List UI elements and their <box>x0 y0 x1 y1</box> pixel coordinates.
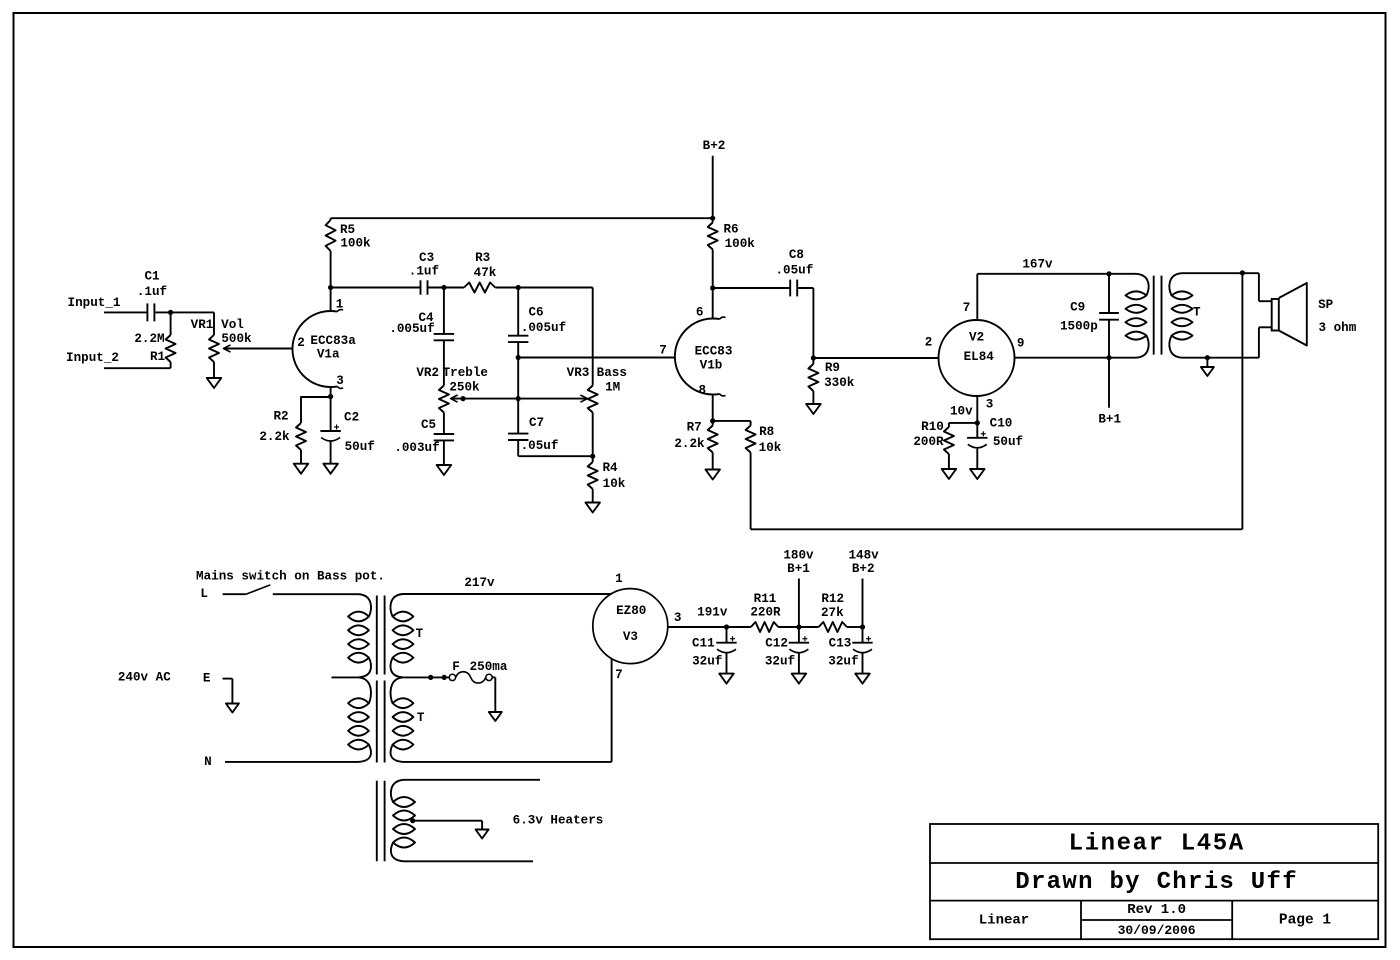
wire Input 1 <box>104 311 147 313</box>
svg-text:191v: 191v <box>697 606 728 620</box>
ground R2 <box>294 464 309 474</box>
svg-text:32uf: 32uf <box>765 655 795 669</box>
junction dot V1a anode node <box>328 285 333 290</box>
fuse F 250ma <box>449 674 455 680</box>
wire anode row to C3 <box>331 287 421 289</box>
mains switch lever <box>246 585 270 594</box>
svg-text:500k: 500k <box>221 332 252 346</box>
svg-text:R10: R10 <box>921 420 944 434</box>
svg-text:C5: C5 <box>421 418 436 432</box>
svg-text:.05uf: .05uf <box>776 264 814 278</box>
svg-text:.1uf: .1uf <box>137 285 167 299</box>
svg-text:T: T <box>416 627 424 641</box>
svg-text:10k: 10k <box>603 477 626 491</box>
svg-text:R1: R1 <box>150 350 166 364</box>
capacitor C9 <box>1108 274 1110 313</box>
capacitor C12 (electrolytic) <box>798 627 800 643</box>
wire B+1 stub <box>798 579 800 628</box>
svg-text:6: 6 <box>696 306 704 320</box>
wire C3 to R3 junction <box>428 287 465 289</box>
power transformer secondary lower winding T <box>391 677 403 703</box>
ground C2 <box>323 464 338 474</box>
svg-text:27k: 27k <box>821 606 844 620</box>
wire C6 node down to wiper row <box>517 358 519 399</box>
transformer T secondary winding <box>1169 273 1182 295</box>
svg-text:C6: C6 <box>528 306 543 320</box>
heater transformer core <box>376 781 378 862</box>
junction dot B+2 rail <box>710 216 715 221</box>
svg-text:N: N <box>204 755 212 769</box>
svg-text:V1a: V1a <box>317 348 340 362</box>
svg-text:.005uf: .005uf <box>521 321 566 335</box>
junction dot V1a cathode <box>328 394 333 399</box>
svg-text:3: 3 <box>986 398 994 412</box>
svg-text:50uf: 50uf <box>993 435 1023 449</box>
svg-text:100k: 100k <box>725 237 756 251</box>
junction dot VR3/C7/R4 <box>590 454 595 459</box>
junction dot 191v node <box>724 624 729 629</box>
capacitor C6 <box>517 288 519 336</box>
capacitor C2 (electrolytic) <box>330 397 332 432</box>
wire R9 node to EL84 grid <box>813 357 938 359</box>
svg-text:3: 3 <box>336 374 344 388</box>
power transformer secondary upper winding T <box>391 594 403 617</box>
svg-text:240v AC: 240v AC <box>118 670 171 684</box>
svg-text:8: 8 <box>699 384 707 398</box>
svg-text:ECC83: ECC83 <box>695 345 733 359</box>
speaker SP <box>1272 299 1279 331</box>
junction dot center tap a <box>428 675 433 680</box>
svg-text:R11: R11 <box>754 592 777 606</box>
svg-text:VR3: VR3 <box>567 366 590 380</box>
svg-text:B+2: B+2 <box>852 562 875 576</box>
triode V1b envelope <box>675 319 720 395</box>
wire speaker top terminal <box>1258 273 1260 301</box>
V2 pin 9 wire <box>1015 357 1137 359</box>
junction dot secondary ground <box>1205 355 1210 360</box>
svg-text:7: 7 <box>615 668 623 682</box>
wire 217v HT winding to rectifier <box>403 593 611 595</box>
capacitor C3 <box>420 280 422 294</box>
svg-text:Page 1: Page 1 <box>1279 913 1332 929</box>
svg-text:V2: V2 <box>969 331 984 345</box>
wire Input 2 <box>104 367 171 369</box>
potentiometer VR1 <box>213 312 215 335</box>
svg-text:F: F <box>452 660 460 674</box>
junction dot wiper row center <box>516 396 521 401</box>
svg-text:Rev 1.0: Rev 1.0 <box>1127 902 1186 918</box>
wire heater bottom lead <box>404 860 533 862</box>
resistor R6 <box>712 218 714 222</box>
svg-text:C7: C7 <box>529 416 544 430</box>
svg-text:7: 7 <box>963 301 971 315</box>
ground VR1 <box>207 378 222 388</box>
V2 pin 3 wire <box>976 396 978 423</box>
junction dot B+1 node <box>796 624 801 629</box>
svg-text:47k: 47k <box>474 266 497 280</box>
svg-text:2: 2 <box>297 336 305 350</box>
V1a pin 1 wire <box>330 288 332 312</box>
svg-text:.1uf: .1uf <box>409 264 439 278</box>
svg-text:Linear: Linear <box>979 913 1029 929</box>
junction dot C6/V1b grid <box>516 355 521 360</box>
svg-text:Treble: Treble <box>443 366 488 380</box>
power transformer primary upper winding <box>359 594 371 616</box>
wire HT center tap to fuse <box>403 676 449 678</box>
power transformer primary lower winding <box>359 677 371 703</box>
svg-text:Input_2: Input_2 <box>66 351 119 365</box>
svg-text:250k: 250k <box>449 381 480 395</box>
wire C1 to VR1 corner <box>155 311 214 313</box>
resistor R11 <box>727 626 751 628</box>
resistor R1 <box>170 312 172 335</box>
junction dot speaker/feedback <box>1240 270 1245 275</box>
junction dot B+2 node <box>860 624 865 629</box>
wire secondary bottom <box>1182 357 1259 359</box>
svg-text:B+1: B+1 <box>1098 413 1121 427</box>
wire fuse to ground <box>492 676 495 678</box>
svg-text:Vol: Vol <box>221 318 244 332</box>
ground C11 <box>719 674 734 684</box>
svg-text:.005uf: .005uf <box>389 322 434 336</box>
svg-text:SP: SP <box>1318 298 1334 312</box>
wire feedback from speaker to R8 <box>751 528 1243 530</box>
svg-text:EL84: EL84 <box>964 350 995 364</box>
svg-text:T: T <box>1193 306 1201 320</box>
ground C5 <box>437 465 452 475</box>
junction dot VR2 wiper <box>460 396 465 401</box>
svg-text:Drawn by Chris Uff: Drawn by Chris Uff <box>1015 869 1298 896</box>
wire feedback top rail R5 to B+2/R6 <box>331 217 713 219</box>
resistor R3 <box>464 283 495 293</box>
resistor R2 <box>296 423 306 450</box>
potentiometer VR2 <box>439 386 449 413</box>
svg-text:C8: C8 <box>789 248 804 262</box>
wire N to transformer primary <box>225 761 359 763</box>
power transformer core <box>376 596 378 675</box>
ground R9 <box>806 404 821 414</box>
wire B+2 stub <box>712 156 714 219</box>
capacitor C11 (electrolytic) <box>726 627 728 643</box>
junction dot C1/R1 <box>168 310 173 315</box>
svg-text:R8: R8 <box>759 425 774 439</box>
capacitor C13 (electrolytic) <box>862 627 864 643</box>
resistor R8 <box>750 421 752 426</box>
wire E <box>223 678 233 680</box>
svg-text:B+1: B+1 <box>787 562 810 576</box>
junction dot heater center tap <box>410 818 415 823</box>
svg-text:2.2k: 2.2k <box>674 437 705 451</box>
wire VR1 wiper to V1a grid <box>224 348 293 350</box>
junction dot center tap b <box>442 675 447 680</box>
svg-text:220R: 220R <box>750 606 781 620</box>
rectifier V3 EZ80 envelope <box>593 589 668 664</box>
VR3 wiper arrow <box>580 395 587 402</box>
svg-text:Mains switch on Bass pot.: Mains switch on Bass pot. <box>196 570 385 584</box>
wire heater top lead <box>404 779 540 781</box>
junction dot C9 top <box>1106 271 1111 276</box>
svg-text:EZ80: EZ80 <box>616 604 646 618</box>
wire B+1 stub under transformer <box>1108 358 1110 408</box>
svg-text:167v: 167v <box>1022 257 1053 271</box>
wire switch to transformer primary <box>273 593 359 595</box>
wire C6 to grid node <box>517 342 519 357</box>
wire 167v plate row <box>977 273 1136 275</box>
svg-text:T: T <box>417 711 425 725</box>
V1a pin 3 wire <box>330 387 332 397</box>
wire cathode to R10 <box>949 422 977 424</box>
ground heater center tap <box>476 830 489 839</box>
wire C8 to R9 node <box>797 287 813 289</box>
svg-text:Bass: Bass <box>597 366 627 380</box>
svg-text:7: 7 <box>659 343 667 357</box>
svg-text:1M: 1M <box>605 381 620 395</box>
svg-text:Linear L45A: Linear L45A <box>1069 830 1245 857</box>
svg-text:R5: R5 <box>340 223 355 237</box>
wire V1b anode to C8 <box>713 287 791 289</box>
svg-text:ECC83a: ECC83a <box>310 334 356 348</box>
svg-text:10k: 10k <box>759 441 782 455</box>
ground R10 <box>942 469 957 479</box>
svg-text:10v: 10v <box>950 405 973 419</box>
svg-text:C3: C3 <box>419 251 434 265</box>
svg-text:100k: 100k <box>340 236 371 250</box>
svg-text:C10: C10 <box>990 417 1013 431</box>
resistor R12 <box>799 626 819 628</box>
svg-text:C12: C12 <box>765 637 788 651</box>
svg-text:R3: R3 <box>475 251 490 265</box>
resistor R10 <box>948 423 950 427</box>
wire wiper row to VR3 arrow <box>518 398 587 400</box>
heater winding 6.3v <box>391 780 404 802</box>
ground C13 <box>855 674 870 684</box>
capacitor C10 (electrolytic) <box>976 423 978 438</box>
svg-text:330k: 330k <box>824 376 855 390</box>
resistor R4 <box>592 456 594 462</box>
title block box <box>930 824 1378 939</box>
capacitor C8 <box>789 280 791 297</box>
transformer T primary winding <box>1136 274 1149 296</box>
svg-text:.05uf: .05uf <box>521 439 559 453</box>
V1b pin 8 wire <box>712 394 714 421</box>
svg-text:R7: R7 <box>687 421 702 435</box>
transformer T core <box>1153 276 1155 355</box>
resistor R5 <box>330 218 332 220</box>
capacitor C5 <box>434 433 454 435</box>
junction dot C9 bottom / B+1 <box>1106 355 1111 360</box>
svg-text:V1b: V1b <box>700 359 723 373</box>
ground fuse/center tap <box>489 712 502 721</box>
power transformer primary center tap stub <box>332 676 359 678</box>
V3 pin 3 wire <box>668 626 727 628</box>
resistor R9 <box>812 358 814 364</box>
svg-text:2.2k: 2.2k <box>259 430 290 444</box>
V3 pin 7 wire <box>611 659 613 762</box>
junction dot V1b anode node <box>710 285 715 290</box>
svg-text:32uf: 32uf <box>692 655 722 669</box>
junction dot V2 cathode <box>975 420 980 425</box>
ground C10 <box>970 469 985 479</box>
svg-text:C11: C11 <box>692 637 715 651</box>
wire R3 to VR3 branch <box>495 287 592 289</box>
svg-text:2: 2 <box>925 335 933 349</box>
VR1 wiper arrow <box>224 345 231 352</box>
svg-text:200R: 200R <box>913 435 944 449</box>
svg-text:148v: 148v <box>848 548 879 562</box>
svg-text:250ma: 250ma <box>470 660 508 674</box>
title block dividers <box>930 862 1378 864</box>
svg-text:B+2: B+2 <box>703 139 726 153</box>
V1b pin 6 wire <box>712 288 714 319</box>
ground R4 <box>585 503 600 513</box>
svg-text:6.3v Heaters: 6.3v Heaters <box>513 814 604 828</box>
svg-text:Input_1: Input_1 <box>68 296 121 310</box>
wire speaker bottom terminal <box>1258 327 1260 357</box>
junction dot R3/C6 <box>516 285 521 290</box>
svg-text:1: 1 <box>615 572 623 586</box>
wire cathode to R2 <box>301 396 331 398</box>
svg-text:C9: C9 <box>1070 300 1085 314</box>
ground E (mains earth) <box>226 704 239 713</box>
wire heater center tap <box>413 820 482 822</box>
junction dot C8/R9/EL84 grid <box>811 355 816 360</box>
capacitor C7 <box>517 399 519 434</box>
svg-text:R4: R4 <box>602 461 618 475</box>
svg-text:1: 1 <box>336 298 344 312</box>
svg-text:VR1: VR1 <box>191 318 214 332</box>
svg-text:32uf: 32uf <box>828 655 858 669</box>
svg-text:3 ohm: 3 ohm <box>1319 321 1357 335</box>
VR2 wiper arrow <box>451 395 458 402</box>
V2 pin 7 wire <box>976 274 978 320</box>
svg-text:3: 3 <box>674 611 682 625</box>
triode V1a envelope <box>292 311 337 387</box>
svg-text:R2: R2 <box>273 409 288 423</box>
svg-text:.003uf: .003uf <box>394 441 439 455</box>
svg-text:1500p: 1500p <box>1060 319 1098 333</box>
wire VR2 wiper row <box>451 398 519 400</box>
svg-text:E: E <box>203 672 211 686</box>
junction dot V1b cathode <box>710 418 715 423</box>
svg-text:V3: V3 <box>623 630 638 644</box>
wire C4 to VR2 <box>443 340 445 385</box>
svg-text:R6: R6 <box>723 222 738 236</box>
svg-text:C1: C1 <box>144 270 160 284</box>
ground transformer secondary <box>1206 358 1208 367</box>
svg-text:2.2M: 2.2M <box>134 332 164 346</box>
wire cathode to R8 <box>713 420 751 422</box>
svg-text:VR2: VR2 <box>416 366 439 380</box>
svg-text:R9: R9 <box>825 361 840 375</box>
svg-text:30/09/2006: 30/09/2006 <box>1118 923 1196 938</box>
resistor R7 <box>712 421 714 426</box>
wire pin7 to HT winding bottom <box>403 761 612 763</box>
pentode V2 EL84 envelope <box>939 320 1015 396</box>
svg-text:9: 9 <box>1017 336 1025 350</box>
wire L to switch <box>223 593 246 595</box>
svg-text:L: L <box>200 587 208 601</box>
junction dot C3/C4/R3 <box>441 285 446 290</box>
svg-text:C13: C13 <box>829 637 852 651</box>
capacitor C1 <box>146 303 148 321</box>
wire secondary top to speaker <box>1182 272 1259 274</box>
ground R7 <box>705 470 720 480</box>
capacitor C4 <box>443 288 445 334</box>
potentiometer VR3 <box>592 288 594 386</box>
svg-text:C2: C2 <box>344 411 359 425</box>
wire grid node to V1b <box>518 357 675 359</box>
svg-text:R12: R12 <box>821 592 844 606</box>
wire C7 bottom to R4 node <box>518 455 593 457</box>
wire B+2 stub <box>862 579 864 628</box>
ground C12 <box>792 674 807 684</box>
svg-text:180v: 180v <box>783 548 814 562</box>
svg-text:217v: 217v <box>464 576 495 590</box>
svg-text:50uf: 50uf <box>345 440 375 454</box>
